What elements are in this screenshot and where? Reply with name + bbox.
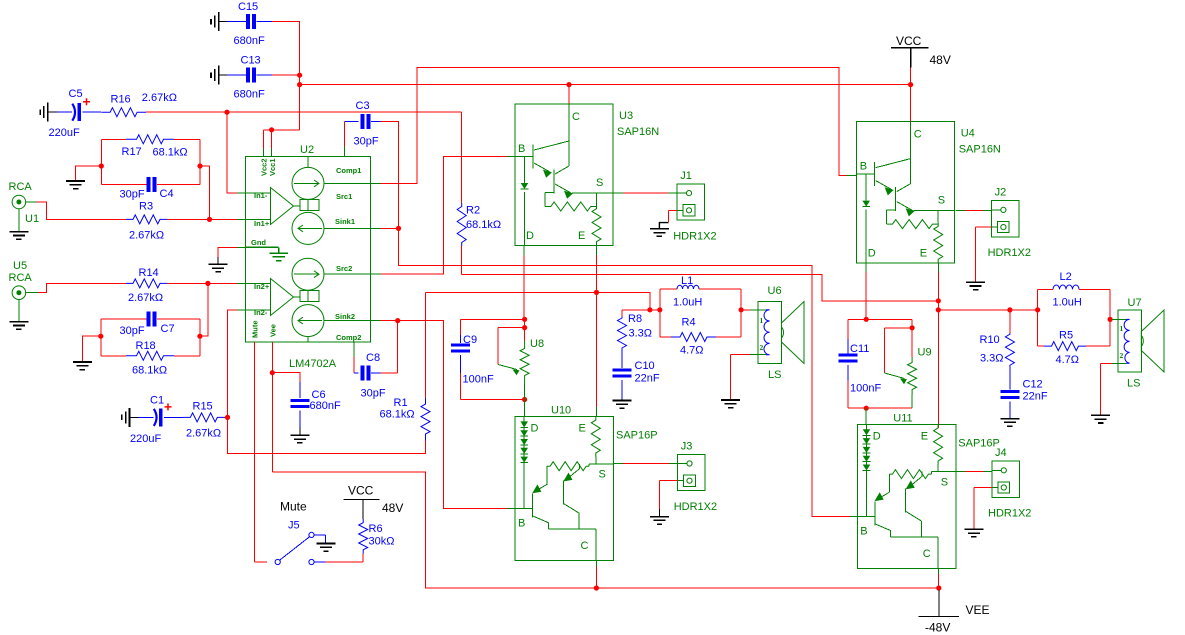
capacitor C9 100nF xyxy=(460,319,462,335)
junction dot R10 tap xyxy=(1007,307,1012,312)
ground R18 xyxy=(73,362,92,370)
wire VCC to U4 collector xyxy=(910,67,912,121)
ground C10 xyxy=(613,401,632,409)
svg-text:SAP16N: SAP16N xyxy=(617,126,659,138)
wire U11 B green stub xyxy=(850,515,858,517)
wire U4 B green stub xyxy=(847,175,857,177)
svg-text:68.1kΩ: 68.1kΩ xyxy=(153,147,188,159)
svg-text:C5: C5 xyxy=(69,88,83,100)
svg-text:C4: C4 xyxy=(160,188,174,200)
svg-text:U4: U4 xyxy=(961,128,975,140)
junction dot L1 box to speaker xyxy=(739,307,744,312)
ground U7 xyxy=(1091,415,1110,423)
svg-text:Comp2: Comp2 xyxy=(336,333,361,342)
svg-text:100nF: 100nF xyxy=(850,383,881,395)
svg-text:LS: LS xyxy=(768,369,781,381)
svg-text:S: S xyxy=(596,177,603,189)
capacitor C7 30pF xyxy=(101,318,147,320)
inductor L2 1.0uH xyxy=(1038,288,1053,290)
ground U5 xyxy=(9,322,28,330)
svg-text:VCC: VCC xyxy=(348,484,374,498)
resistor R17 68.1k xyxy=(101,138,126,140)
svg-text:Vcc1: Vcc1 xyxy=(268,158,277,176)
ground R17 xyxy=(66,181,85,189)
ground J1 xyxy=(650,229,669,237)
transistor U10 pin labels xyxy=(518,422,606,552)
resistor R6 30k xyxy=(359,519,368,554)
svg-text:B: B xyxy=(518,517,525,529)
svg-text:Src2: Src2 xyxy=(336,264,352,273)
svg-text:220uF: 220uF xyxy=(130,433,161,445)
wire Sink1 to U11 base xyxy=(399,228,850,516)
junction dot U10C-VEE xyxy=(594,585,599,590)
wire R14 to In2+ xyxy=(167,282,237,284)
wire U4 D down to C11 box xyxy=(865,263,867,272)
svg-text:J2: J2 xyxy=(995,187,1007,199)
transistor U11 SAP16P body xyxy=(857,424,956,568)
svg-text:30kΩ: 30kΩ xyxy=(369,536,395,548)
wire U6 terminal 2 to ground xyxy=(750,354,766,356)
junction dot outputA-L1 box xyxy=(657,307,662,312)
U2 internal gnd symbol xyxy=(246,247,289,260)
svg-text:680nF: 680nF xyxy=(234,35,265,47)
svg-text:680nF: 680nF xyxy=(234,89,265,101)
resistor R4 4.7 xyxy=(660,336,671,338)
svg-text:D: D xyxy=(531,422,539,434)
resistor R18 68.1k xyxy=(101,355,126,357)
resistor R5 4.7 xyxy=(1038,345,1044,347)
wire Vcc pin stubs green xyxy=(262,148,264,157)
svg-text:HDR1X2: HDR1X2 xyxy=(674,501,717,513)
wire Comp2 pin down xyxy=(353,342,355,357)
wire U10 B green stub xyxy=(507,508,515,510)
power VCC symbol at R6 xyxy=(362,500,364,520)
wire U11 S to J4 xyxy=(956,471,965,473)
junction dot R18 left xyxy=(98,334,103,339)
wire Vcc pins feed xyxy=(263,129,299,131)
junction dot Sink2-C8 xyxy=(395,318,400,323)
resistor R8 3.3 xyxy=(621,310,623,317)
junction dot U3 collector tap xyxy=(566,82,571,87)
svg-text:R4: R4 xyxy=(682,317,696,329)
ground J4 xyxy=(964,529,983,537)
svg-text:J4: J4 xyxy=(995,447,1007,459)
transistor U11 diode chain xyxy=(866,424,868,516)
wire C7/R18 right vertical xyxy=(199,319,201,356)
wire U3 D down xyxy=(523,245,525,255)
wire C15 to VCC bus xyxy=(272,21,300,23)
connector U5 RCA xyxy=(12,286,38,321)
wire C3 right lead to Sink1 vertical xyxy=(380,122,398,229)
svg-text:C15: C15 xyxy=(238,1,258,13)
svg-text:2.67kΩ: 2.67kΩ xyxy=(128,292,163,304)
wire J1 pin2 to ground xyxy=(669,209,678,211)
wire U2 Gnd pin to ground xyxy=(218,247,237,257)
svg-text:100nF: 100nF xyxy=(463,374,494,386)
svg-text:R8: R8 xyxy=(628,313,642,325)
junction dot R15-In2- node xyxy=(225,415,230,420)
svg-text:Sink2: Sink2 xyxy=(335,312,355,321)
wire node to In1- pin xyxy=(227,112,237,193)
svg-text:J1: J1 xyxy=(680,170,692,182)
transistor U4 SAP16N body xyxy=(857,122,955,263)
wire L2 box right vertical xyxy=(1109,289,1111,346)
svg-text:68.1kΩ: 68.1kΩ xyxy=(132,365,167,377)
wire C13 to VCC bus xyxy=(272,74,300,76)
connector J1 HDR1X2 xyxy=(677,184,705,220)
wire U9 box to U11 D xyxy=(865,408,867,424)
junction dot C9 top xyxy=(522,317,527,322)
wire C11 box bottom xyxy=(848,407,912,409)
junction dot C9 bottom xyxy=(522,397,527,402)
wire U11 C to VEE rail xyxy=(937,569,939,575)
junction dot R2fb-U4E xyxy=(936,298,941,303)
ground U2 xyxy=(209,264,228,272)
wire U5 to R14 xyxy=(38,283,126,292)
wire U7 terminal 2 to ground xyxy=(1112,362,1126,364)
svg-text:RCA: RCA xyxy=(9,181,33,193)
wire U3 S to J1 xyxy=(613,192,624,194)
ground J5 xyxy=(317,544,336,552)
capacitor C12 22nF xyxy=(1009,367,1011,390)
svg-text:Gnd: Gnd xyxy=(251,238,266,247)
wire feedback return to R1 xyxy=(228,417,426,453)
junction dot In1+ xyxy=(207,217,212,222)
svg-text:In2+: In2+ xyxy=(254,282,270,291)
wire Mute pin down to J5 xyxy=(254,342,256,562)
svg-text:E: E xyxy=(578,230,585,242)
transistor U10 SAP16P body xyxy=(515,416,614,560)
svg-text:R10: R10 xyxy=(980,334,1000,346)
ground C12 xyxy=(1000,419,1019,427)
svg-text:B: B xyxy=(860,525,867,537)
connector J4 HDR1X2 xyxy=(992,461,1020,497)
resistor R15 2.67k xyxy=(183,413,225,422)
svg-text:U10: U10 xyxy=(551,404,571,416)
svg-text:SAP16P: SAP16P xyxy=(958,437,1000,449)
svg-text:C12: C12 xyxy=(1023,379,1043,391)
svg-text:VEE: VEE xyxy=(966,603,990,617)
wire Comp1 pin to U4 base rail xyxy=(371,182,381,184)
svg-text:LM4702A: LM4702A xyxy=(289,358,337,370)
op-amp U2 LM4702A body xyxy=(246,157,371,342)
svg-text:R5: R5 xyxy=(1059,330,1073,342)
svg-text:D: D xyxy=(868,248,876,260)
svg-text:C: C xyxy=(914,129,922,141)
svg-text:HDR1X2: HDR1X2 xyxy=(673,230,716,242)
svg-text:R15: R15 xyxy=(193,401,213,413)
svg-text:C11: C11 xyxy=(850,343,869,355)
wire U4 S to J2 xyxy=(955,210,965,212)
svg-text:B: B xyxy=(860,161,867,173)
wire U3 E to U10 E xyxy=(596,245,598,255)
svg-text:D: D xyxy=(873,430,881,442)
transistor U3 pin labels xyxy=(518,111,603,242)
wire to U7 terminal 1 xyxy=(1110,318,1112,320)
svg-text:U7: U7 xyxy=(1128,297,1142,309)
svg-text:1: 1 xyxy=(1120,324,1124,333)
wire C6 tap xyxy=(272,373,300,382)
wire Sink2 to U10 base xyxy=(398,321,507,509)
capacitor C6 680nF xyxy=(299,382,301,398)
svg-text:C7: C7 xyxy=(161,323,175,335)
wire C7/R18 left vertical xyxy=(100,319,102,356)
svg-text:C10: C10 xyxy=(635,360,655,372)
power VEE symbol xyxy=(938,590,940,617)
junction dot R17 left xyxy=(99,163,104,168)
svg-text:U2: U2 xyxy=(300,144,314,156)
svg-text:Mute: Mute xyxy=(280,500,307,514)
wire C3 left lead down to U2 top pin xyxy=(343,122,345,148)
svg-text:S: S xyxy=(599,468,606,480)
wire L1 box left vertical xyxy=(659,289,661,337)
ground for C1 xyxy=(122,408,130,427)
junction dot In2+ xyxy=(205,281,210,286)
wire R17/C4 left vertical xyxy=(100,139,102,184)
wire In1+ green stub xyxy=(237,218,246,220)
junction dot outputA-U3E xyxy=(594,290,599,295)
svg-text:U11: U11 xyxy=(893,412,912,424)
svg-text:R6: R6 xyxy=(369,523,383,535)
junction dot outputA corner xyxy=(647,307,652,312)
svg-text:In1-: In1- xyxy=(254,191,268,200)
svg-text:R14: R14 xyxy=(139,267,159,279)
capacitor C3 30pF xyxy=(344,121,358,123)
svg-text:B: B xyxy=(518,143,525,155)
ground J2 xyxy=(966,282,985,290)
potentiometer U9 xyxy=(911,319,913,357)
wire L1 box right vertical xyxy=(740,289,742,337)
wire C6 to ground xyxy=(299,427,301,435)
transistor U3 SAP16N body xyxy=(515,104,613,245)
transistor U11 pin labels xyxy=(860,430,948,560)
transistor U10 diode chain xyxy=(523,416,525,508)
svg-text:1.0uH: 1.0uH xyxy=(673,297,702,309)
speaker U7 xyxy=(1118,310,1164,372)
svg-text:E: E xyxy=(579,422,586,434)
junction dot L2 box to speaker xyxy=(1108,317,1113,322)
resistor R14 2.67k xyxy=(126,279,167,288)
svg-text:J5: J5 xyxy=(288,520,300,532)
wire C9 box bottom xyxy=(461,399,525,401)
svg-text:RCA: RCA xyxy=(9,272,33,284)
svg-text:U5: U5 xyxy=(13,260,27,272)
svg-text:-48V: -48V xyxy=(925,621,950,635)
U2 top pin stub for C3 xyxy=(343,147,345,157)
junction dot VCC rail xyxy=(908,82,913,87)
svg-text:C13: C13 xyxy=(241,55,261,67)
resistor R2 68.1k xyxy=(461,112,463,203)
junction dot L2 box left xyxy=(1035,307,1040,312)
wire In2- to feedback node xyxy=(228,310,238,417)
wire R16 output line y111 xyxy=(146,111,462,113)
transistor U4 internals xyxy=(857,122,955,263)
svg-text:2: 2 xyxy=(1120,351,1124,360)
svg-text:U6: U6 xyxy=(768,285,782,297)
svg-text:1.0uH: 1.0uH xyxy=(1053,297,1082,309)
wire R8 tap xyxy=(622,309,650,311)
svg-text:D: D xyxy=(526,230,534,242)
ground for C13 xyxy=(211,66,219,85)
svg-text:C: C xyxy=(572,111,580,123)
wire In2+ green stub xyxy=(237,282,246,284)
junction dot R17 right xyxy=(197,163,202,168)
svg-text:22nF: 22nF xyxy=(635,373,660,385)
svg-text:C8: C8 xyxy=(366,352,380,364)
svg-text:Src1: Src1 xyxy=(336,192,352,201)
svg-text:SAP16P: SAP16P xyxy=(616,429,658,441)
wire R17 right tap to In1+ node xyxy=(200,166,210,219)
wire C11 box top xyxy=(848,318,912,320)
svg-text:2.67kΩ: 2.67kΩ xyxy=(129,230,164,242)
svg-text:4.7Ω: 4.7Ω xyxy=(680,345,704,357)
svg-text:SAP16N: SAP16N xyxy=(959,144,1001,156)
svg-text:30pF: 30pF xyxy=(120,189,145,201)
wire R15 to node xyxy=(225,416,228,418)
resistor R1 68.1k xyxy=(425,292,427,397)
power VCC symbol xyxy=(891,48,928,68)
svg-text:680nF: 680nF xyxy=(310,400,341,412)
svg-text:R2: R2 xyxy=(466,205,480,217)
junction dot C13-bus xyxy=(297,73,302,78)
wire U10 C to VEE rail xyxy=(595,561,597,567)
ground for C5 xyxy=(40,103,48,122)
svg-text:R3: R3 xyxy=(139,201,153,213)
svg-text:J3: J3 xyxy=(681,440,693,452)
transistor U4 pin labels xyxy=(860,129,945,260)
svg-text:22nF: 22nF xyxy=(1023,391,1048,403)
svg-text:Sink1: Sink1 xyxy=(335,217,355,226)
wire VCC to U3 collector xyxy=(568,85,570,104)
svg-text:3.3Ω: 3.3Ω xyxy=(629,328,653,340)
junction dot C11 box top xyxy=(864,317,869,322)
resistor R3 2.67k xyxy=(126,215,167,224)
wire VCC rail y85 to right xyxy=(300,84,911,86)
svg-text:C: C xyxy=(923,548,931,560)
svg-text:S: S xyxy=(938,195,945,207)
svg-text:2: 2 xyxy=(760,343,764,352)
svg-text:VCC: VCC xyxy=(896,34,922,48)
wire J5 to R6 xyxy=(325,561,363,563)
svg-text:R16: R16 xyxy=(111,94,131,106)
U2 pin labels xyxy=(251,158,362,342)
wire U10 S to J3 xyxy=(614,462,623,464)
svg-text:68.1kΩ: 68.1kΩ xyxy=(380,409,415,421)
wire C10 to ground xyxy=(621,398,623,401)
wire C9 bottom leg xyxy=(460,373,462,400)
resistor R10 3.3 xyxy=(1009,310,1011,333)
wire Vee return rail xyxy=(272,472,939,588)
switch J5 xyxy=(275,532,325,564)
ground U1 xyxy=(9,232,28,240)
wire Sink2 pin xyxy=(371,320,381,322)
junction dot U11C-VEE xyxy=(936,585,941,590)
wire to U6 terminal 1 xyxy=(741,309,750,311)
wire R17 left to ground xyxy=(76,166,102,180)
U2 internal channel1 xyxy=(246,157,371,245)
transistor U10 internals xyxy=(515,457,614,561)
svg-text:R18: R18 xyxy=(136,340,156,352)
svg-text:E: E xyxy=(921,430,928,442)
wire In2- green stub xyxy=(237,309,246,311)
wire U8 to U10 D xyxy=(524,400,526,417)
svg-text:30pF: 30pF xyxy=(354,136,379,148)
speaker U6 xyxy=(758,301,804,363)
junction dot R16-In1- node xyxy=(224,110,229,115)
svg-text:In2-: In2- xyxy=(254,308,268,317)
svg-text:220uF: 220uF xyxy=(49,127,80,139)
ground C6 xyxy=(290,435,309,443)
svg-text:LS: LS xyxy=(1127,378,1140,390)
svg-text:L2: L2 xyxy=(1060,271,1072,283)
svg-text:C9: C9 xyxy=(463,334,477,346)
wire C11 bottom leg xyxy=(847,381,849,409)
svg-text:S: S xyxy=(941,476,948,488)
ground J3 xyxy=(650,517,669,525)
wire J3 pin2 to ground xyxy=(660,480,678,482)
wire output line channel B xyxy=(938,309,1037,311)
U2 internal channel2 xyxy=(246,258,371,342)
connector U1 RCA xyxy=(12,195,36,231)
junction dot U4E output xyxy=(936,307,941,312)
capacitor C15 xyxy=(227,21,246,23)
connector J3 HDR1X2 xyxy=(678,454,706,490)
junction dot Vee-C6 xyxy=(270,370,275,375)
wire J2 pin2 to ground xyxy=(976,226,992,228)
wire U1 to R3 xyxy=(37,202,127,219)
capacitor C13 xyxy=(227,74,246,76)
svg-text:U1: U1 xyxy=(25,213,39,225)
wire L2 box left vertical xyxy=(1037,289,1039,346)
wire In1- green stub xyxy=(237,192,246,194)
wire Vee pin down xyxy=(271,342,273,472)
svg-text:2.67kΩ: 2.67kΩ xyxy=(186,428,221,440)
svg-text:3.3Ω: 3.3Ω xyxy=(980,353,1004,365)
potentiometer U8 xyxy=(524,319,526,341)
svg-text:HDR1X2: HDR1X2 xyxy=(988,508,1031,520)
svg-text:R1: R1 xyxy=(394,397,408,409)
capacitor C11 100nF xyxy=(847,319,849,339)
junction dot Sink1-C3 xyxy=(396,226,401,231)
junction dot Vcc1 xyxy=(269,127,274,132)
svg-text:68.1kΩ: 68.1kΩ xyxy=(466,219,501,231)
wire R18 left to ground xyxy=(82,336,101,361)
VCC bus vertical wire xyxy=(299,22,301,130)
resistor R16 2.67k xyxy=(101,108,146,117)
capacitor C5 220uF xyxy=(57,111,72,113)
wire Src2 pin to U3 base xyxy=(371,273,382,275)
capacitor C1 220uF xyxy=(138,416,154,418)
wire C9 box top xyxy=(461,318,525,320)
junction dot C11 box bottom xyxy=(864,406,869,411)
junction dot VCC-line tap xyxy=(297,82,302,87)
wire R18 right tap to In2+ node xyxy=(200,283,208,336)
svg-text:2.67kΩ: 2.67kΩ xyxy=(142,92,177,104)
wire R3 to In1+ xyxy=(167,218,237,220)
wire J4 pin2 to ground xyxy=(974,487,992,489)
svg-text:R17: R17 xyxy=(122,146,142,158)
svg-text:U3: U3 xyxy=(619,110,633,122)
svg-text:E: E xyxy=(920,248,927,260)
inductor L1 1.0uH xyxy=(660,288,677,290)
svg-text:L1: L1 xyxy=(681,275,693,287)
wire R2 bottom to U4 emitter node xyxy=(462,275,939,301)
transistor U11 internals xyxy=(857,465,956,569)
svg-text:C1: C1 xyxy=(150,395,164,407)
svg-text:30pF: 30pF xyxy=(120,325,145,337)
capacitor C4 30pF xyxy=(101,183,146,185)
transistor U3 internals xyxy=(515,104,613,245)
